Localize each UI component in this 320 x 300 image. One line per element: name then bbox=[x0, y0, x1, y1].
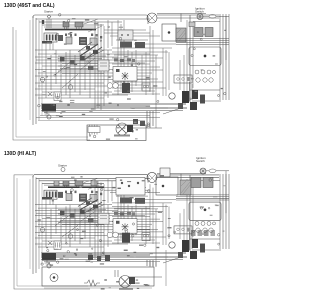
wire - cluster tail bbox=[163, 257, 181, 263]
wire - drop 3 bbox=[152, 260, 154, 266]
wire - starter leads bbox=[47, 19, 51, 28]
wire - bus risers bbox=[150, 262, 156, 267]
control unit slots bbox=[81, 195, 86, 196]
control unit bbox=[79, 37, 87, 45]
wire - mesh diagonals bbox=[55, 212, 95, 238]
wire - drop 4 bbox=[155, 209, 157, 266]
svg-text:Switch: Switch bbox=[196, 159, 205, 163]
wire - dense center bundle bbox=[58, 210, 106, 225]
wire - top bus 3 bbox=[39, 21, 122, 23]
thermo sensor bbox=[84, 280, 100, 286]
junction blobs in bus bbox=[88, 255, 110, 261]
fuse panel contents bbox=[177, 228, 180, 231]
ignition relay bbox=[58, 35, 63, 41]
wire - right column verticals bbox=[220, 174, 229, 249]
wire - column top cap bbox=[216, 171, 229, 213]
combination switch box bbox=[189, 202, 221, 221]
battery junction knot bbox=[42, 104, 56, 112]
wire - mesh diagonals bbox=[55, 58, 95, 88]
connector - switch oval bbox=[209, 14, 216, 18]
wire - top bus 5 bbox=[44, 26, 96, 28]
alternator terminal blob bbox=[127, 125, 133, 132]
wire - column top cap bbox=[216, 16, 229, 60]
connector dots bbox=[38, 14, 226, 138]
fuse block B bbox=[120, 42, 132, 48]
regulator box bbox=[98, 213, 109, 224]
diode block 1 bbox=[60, 211, 65, 216]
wire - column bus bbox=[176, 39, 229, 45]
wire - mid-right harness bbox=[104, 20, 187, 100]
svg-text:130D (HI ALT): 130D (HI ALT) bbox=[4, 151, 37, 157]
wire - switch feed bbox=[157, 174, 206, 181]
wire - top gap verticals bbox=[108, 20, 112, 48]
wire - top bus 5 bbox=[44, 184, 96, 186]
connector ring mesh 2 bbox=[68, 234, 73, 239]
wire - left bundle bbox=[30, 176, 42, 274]
relay box 1 pins bbox=[65, 27, 69, 29]
wire - column inner box top bbox=[193, 22, 220, 89]
wire - lower bus 2 bbox=[41, 105, 150, 107]
wire - lower bus 6 bbox=[36, 117, 160, 119]
main relay bbox=[66, 37, 72, 44]
wire - lower bus 1 bbox=[41, 103, 186, 105]
ignition switch spokes bbox=[200, 168, 206, 174]
connector row 1 bbox=[195, 221, 216, 225]
wire - top bus 2 bbox=[36, 177, 150, 179]
spark unit 2 bbox=[190, 251, 197, 259]
connector block 1 bbox=[194, 28, 203, 37]
relay box 2 pins bbox=[77, 27, 82, 29]
control unit slots bbox=[81, 39, 86, 40]
junction box hatch lines bbox=[177, 29, 186, 41]
wire - below fusebox verticals bbox=[46, 42, 53, 50]
wire - harness mesh horizontals bbox=[35, 50, 150, 98]
connector - pin box bbox=[54, 92, 61, 101]
relay box 2 bbox=[75, 22, 83, 27]
alternator symbol bbox=[116, 123, 128, 135]
condenser fan dot bbox=[53, 276, 55, 278]
distributor bbox=[192, 239, 198, 248]
wire - column to coil drop bbox=[190, 232, 193, 250]
wire - top bus 2 bbox=[36, 18, 150, 20]
alternator symbol (bottom) bbox=[119, 276, 131, 288]
sensor block bbox=[88, 218, 94, 222]
diode block 2 bbox=[70, 213, 75, 218]
diode block 2 bbox=[70, 60, 75, 65]
svg-text:Starter: Starter bbox=[44, 10, 53, 14]
connector light box mid bbox=[118, 30, 133, 40]
connector - multipin bbox=[88, 125, 100, 135]
connector marks pair bbox=[142, 83, 150, 91]
wire - bottom link bbox=[128, 276, 162, 278]
connector marks pair bbox=[142, 233, 150, 241]
wire - drop 2 bbox=[149, 260, 151, 266]
fuse panel contents bbox=[177, 78, 180, 81]
ignition switch symbol bbox=[200, 168, 206, 174]
wire - alt right 1 bbox=[157, 174, 219, 176]
wire - harness diagonal 2 bbox=[88, 184, 102, 189]
switch block bbox=[80, 56, 85, 61]
fuse box slots bbox=[46, 192, 57, 198]
connector ring mesh 1 bbox=[40, 77, 45, 82]
fuse block B bbox=[120, 197, 132, 203]
fuse panel low bbox=[174, 226, 192, 234]
wire - drop 4 bbox=[155, 55, 157, 128]
alternator X bbox=[149, 15, 156, 22]
connector small box bbox=[160, 168, 170, 177]
connector dots bbox=[41, 179, 220, 266]
wire - right column bottom bbox=[190, 89, 220, 91]
relay box 2 pins bbox=[77, 185, 82, 187]
wire - mid-right harness bbox=[104, 179, 187, 249]
fuse box under-streak bbox=[42, 41, 52, 44]
wire - drop 2 bbox=[149, 111, 151, 128]
wire - switch link bbox=[203, 15, 209, 17]
connector block 1 bbox=[191, 178, 201, 188]
label - under alternator (bottom) bbox=[119, 288, 133, 290]
connector small box bbox=[189, 22, 195, 27]
connector ring mesh 2 bbox=[68, 85, 73, 90]
spark unit 3 bbox=[200, 244, 205, 253]
condenser bbox=[169, 93, 175, 99]
fuse box bbox=[44, 33, 57, 42]
relay box 1 pins bbox=[65, 185, 69, 187]
connector block 2 bbox=[203, 178, 213, 188]
combination switch box bbox=[189, 47, 221, 66]
spark unit 1 bbox=[178, 252, 183, 258]
horn relay asterisk bbox=[122, 72, 129, 80]
wire - below fusebox verticals bbox=[46, 198, 53, 205]
wire - column inner box top bbox=[193, 180, 220, 237]
wire - harness mesh horizontals bbox=[35, 205, 150, 247]
junction box hatch lines bbox=[181, 181, 191, 194]
connector - mid circle pair bbox=[107, 83, 113, 89]
wire - left outer frame bbox=[14, 175, 90, 289]
wire - right column verticals bbox=[220, 14, 229, 100]
wire - drop 3 bbox=[152, 111, 154, 126]
wire - right column bottom bbox=[190, 238, 220, 240]
wire - lower bus 4b bbox=[44, 112, 160, 114]
combination switch dot bbox=[204, 209, 206, 211]
wire - top bus loop bbox=[33, 175, 148, 183]
wire - lower bus 7 bbox=[38, 120, 145, 122]
ground symbol bbox=[45, 111, 50, 116]
instrument box bbox=[87, 125, 146, 141]
wire - harness diagonal 2 bbox=[88, 26, 102, 32]
wire - column to coil drop bbox=[190, 82, 193, 101]
wire - top gap verticals bbox=[108, 179, 112, 203]
resistor block bbox=[90, 194, 97, 201]
connector ring low bbox=[47, 115, 51, 119]
connector - mid circle pair bbox=[107, 232, 113, 238]
main relay bbox=[66, 194, 72, 201]
relay box 1 bbox=[63, 181, 69, 186]
radiator fan box bbox=[42, 267, 154, 286]
wire - switch link bbox=[206, 170, 209, 172]
wire - harness diagonal bbox=[84, 19, 98, 24]
svg-text:130D (49ST and CAL): 130D (49ST and CAL) bbox=[4, 3, 55, 9]
wire - harness mesh verticals bbox=[46, 20, 108, 110]
condenser bbox=[169, 242, 175, 248]
diode block 1 bbox=[60, 57, 65, 62]
alternator bbox=[147, 172, 157, 182]
svg-text:Switch: Switch bbox=[195, 10, 204, 14]
connector rects row bbox=[191, 230, 215, 236]
connector ring low bbox=[47, 264, 51, 268]
wire - left bundle bbox=[30, 16, 42, 125]
junction cluster bbox=[133, 119, 145, 126]
wire - top bus 3 bbox=[39, 180, 122, 182]
connector - pin box bbox=[54, 241, 61, 250]
fuse body A bbox=[162, 24, 176, 41]
wire - right column bottom 2 bbox=[192, 249, 221, 251]
alternator marks bbox=[118, 125, 126, 133]
switch block bbox=[80, 210, 85, 215]
ignition relay bbox=[58, 192, 63, 198]
wire - lower bus 3 bbox=[41, 256, 187, 258]
fuse box bbox=[44, 190, 57, 199]
regulator marks bbox=[100, 63, 107, 66]
horn relay box bbox=[113, 67, 137, 82]
wire - harness mesh verticals bbox=[46, 179, 108, 259]
connector - switch oval bbox=[209, 169, 216, 173]
harness knot - diagonal cluster bbox=[78, 42, 104, 60]
wire - cluster link bbox=[130, 256, 168, 258]
wire - left outer frame bbox=[13, 27, 90, 140]
relay box 3 bbox=[54, 181, 59, 186]
junction white box dots bbox=[121, 182, 123, 184]
ignition switch spokes bbox=[197, 14, 203, 20]
ignition coil bbox=[182, 91, 189, 103]
connector row - above box bbox=[114, 212, 135, 215]
fuse block C bbox=[135, 198, 145, 204]
label - under alternator bbox=[114, 135, 130, 137]
horn relay box bbox=[113, 219, 137, 234]
condenser fan motor bbox=[50, 274, 58, 282]
wire - switch feed bbox=[157, 14, 206, 23]
wire - lower bus 1 bbox=[41, 252, 186, 254]
spark unit 1 bbox=[178, 103, 183, 109]
regulator box bbox=[98, 60, 109, 71]
wire - Y fork bbox=[48, 241, 52, 245]
horn relay terminal bbox=[116, 69, 120, 72]
junction box hatched bbox=[180, 180, 191, 195]
wire - alt right 2 bbox=[157, 17, 219, 19]
wire - lower bus 4b bbox=[44, 261, 160, 263]
harness knot - diagonal cluster bbox=[78, 198, 104, 213]
wire - riser pair to alternator bbox=[115, 270, 118, 277]
control unit bbox=[79, 194, 87, 202]
wire - right column left edge bbox=[189, 15, 191, 102]
svg-text:Starter: Starter bbox=[58, 164, 67, 168]
wire - inner left frame bbox=[16, 30, 88, 137]
wire - bottom link bbox=[128, 127, 162, 129]
junction box hatched bbox=[176, 28, 186, 42]
connector row 2 bbox=[196, 78, 213, 82]
wire - lower bus 4 bbox=[41, 259, 183, 261]
fuse panel low bbox=[174, 75, 192, 83]
connector - starter terminal bbox=[47, 15, 51, 19]
regulator marks bbox=[100, 216, 107, 219]
wire - cluster tail bbox=[163, 108, 181, 114]
fuse block C bbox=[135, 42, 145, 48]
wire - lower bus 4 bbox=[41, 110, 183, 112]
wire - top bus 4 bbox=[42, 24, 104, 26]
wire - right column bottom 2 bbox=[192, 100, 221, 102]
distributor bbox=[192, 90, 198, 99]
wire - drop 1 bbox=[146, 111, 148, 128]
horn relay asterisk bbox=[122, 223, 129, 231]
labels - tiny text smudges bbox=[38, 175, 227, 290]
ignition switch symbol bbox=[197, 14, 203, 20]
wire - dense center bundle bbox=[58, 56, 106, 74]
fuse body A dot bbox=[168, 31, 170, 33]
wire - alt right 1 bbox=[157, 14, 219, 16]
wire - cluster link bbox=[130, 107, 168, 109]
alternator marks (bottom) bbox=[121, 278, 129, 286]
alternator X bbox=[149, 174, 156, 181]
ignition coil bbox=[182, 240, 189, 252]
fuse box slots bbox=[46, 35, 57, 41]
starter lead mark bbox=[42, 20, 44, 24]
connector - starter terminal bbox=[61, 168, 65, 172]
horn relay terminal bbox=[116, 221, 120, 224]
wire - harness diagonal bbox=[84, 178, 98, 182]
spark unit 3 bbox=[200, 95, 205, 104]
combination switch dot bbox=[204, 55, 206, 57]
labels - tiny text smudges bbox=[41, 18, 226, 140]
wire - right side drop bbox=[165, 250, 167, 286]
component ticks row bbox=[65, 191, 102, 196]
relay box 4 bbox=[91, 181, 97, 186]
spark unit 2 bbox=[190, 102, 197, 110]
relay box 1 bbox=[63, 22, 69, 27]
fuse body A dot bbox=[162, 185, 164, 187]
wire - thick harness bbox=[48, 186, 104, 188]
wire - lower bus 5 bbox=[40, 115, 150, 117]
wire - right column left edge bbox=[189, 175, 191, 251]
connector block 2 bbox=[205, 28, 213, 37]
relay box 2 bbox=[75, 181, 83, 186]
coil component mid bbox=[122, 233, 130, 243]
component ticks row bbox=[65, 34, 102, 39]
wire - drop 1 bbox=[146, 260, 148, 266]
wire - box double bottom bbox=[44, 287, 152, 289]
wire - lower bus 3 bbox=[41, 107, 187, 109]
wire - inner left frame bbox=[17, 178, 88, 286]
fuse body A bbox=[156, 177, 178, 195]
ground symbol bbox=[45, 260, 50, 265]
wire - lower bus 2 bbox=[41, 254, 150, 256]
alternator bbox=[147, 13, 157, 23]
alternator terminal blob (bottom) bbox=[129, 277, 135, 284]
wire - top bus loop bbox=[33, 15, 148, 24]
junction white box left bbox=[116, 178, 145, 196]
wire - column bus bbox=[176, 195, 229, 200]
wire - thick harness bbox=[45, 29, 96, 31]
connector row - above box bbox=[114, 59, 135, 63]
connector light box marks bbox=[121, 34, 123, 36]
wire - Y fork bbox=[48, 92, 52, 96]
coil component mid bbox=[122, 83, 130, 93]
connector row 1 bbox=[195, 70, 216, 74]
connector row 2 bbox=[196, 228, 213, 232]
resistor block bbox=[90, 38, 97, 45]
wire - top bus 4 bbox=[42, 182, 104, 184]
battery junction knot bbox=[42, 253, 56, 261]
sensor block bbox=[88, 66, 94, 70]
wire - alt right 2 bbox=[157, 176, 219, 178]
connector ring mesh 1 bbox=[40, 228, 45, 233]
fuse box under-streak bbox=[42, 197, 52, 200]
